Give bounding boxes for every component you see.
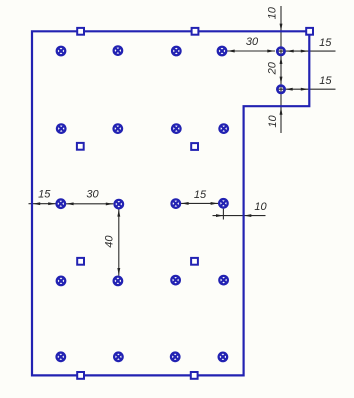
svg-text:15: 15: [194, 189, 207, 201]
arrow dim20 upper, tip below lamp: [280, 57, 283, 64]
arrow dim10 notch, tip below notch edge: [280, 107, 283, 114]
box on bottom wall 1: [77, 372, 84, 379]
lamp r4c1: [57, 277, 66, 286]
lamp r2c4: [219, 124, 228, 133]
box standalone row4 right: [191, 258, 198, 265]
lamp r3c2: [115, 200, 124, 209]
box on top wall 2: [192, 28, 199, 35]
arrow dim15 left row3, tip at lamp: [48, 202, 55, 205]
lamp r3c3: [172, 199, 181, 208]
arrow dim15 mid row3 left: [181, 202, 188, 205]
extension line below lamp row3 col4: [222, 209, 224, 220]
lamp r5c4: [219, 353, 228, 362]
lamp r1c1: [57, 47, 66, 56]
dimension line 15 left row3: [29, 203, 56, 205]
arrow dim40 top: [117, 209, 120, 216]
svg-text:15: 15: [319, 37, 332, 49]
lamp r4c3: [171, 276, 180, 285]
svg-text:30: 30: [246, 36, 259, 48]
lamp r2c3: [172, 124, 181, 133]
arrow dim15 upper-right left: [286, 50, 293, 53]
svg-text:30: 30: [86, 188, 99, 200]
svg-text:15: 15: [38, 188, 51, 200]
arrow dim30 left row3, tip at lamp: [66, 202, 73, 205]
svg-text:15: 15: [319, 75, 332, 87]
lamp r5c2: [114, 353, 123, 362]
box on top wall 1: [77, 28, 84, 35]
ring lamp upper (dimensioned): [277, 48, 284, 55]
arrow dim10 top, tip at wall: [280, 24, 283, 31]
dimension line 30 left row3: [66, 203, 113, 205]
lamp r3c4: [219, 199, 228, 208]
lamp r2c2: [114, 124, 123, 133]
lamp r4c2: [114, 277, 123, 286]
lamp r3c1: [57, 199, 66, 208]
box on bottom wall 2: [191, 372, 198, 379]
box standalone row2 left: [77, 143, 84, 150]
arrow dim15 mid row3 right: [211, 202, 218, 205]
dimension line 15 mid row3: [181, 202, 218, 204]
lamp r1c2: [114, 46, 123, 55]
arrow dim20 lower, tip above ring: [280, 77, 283, 84]
box at top-right corner: [306, 28, 313, 35]
arrow dim10 mid, tip at extension: [216, 214, 223, 217]
arrow dim10 mid, tip at wall: [244, 214, 251, 217]
dimension line 15 lower right: [277, 88, 336, 90]
arrow dim40 bottom: [117, 268, 120, 275]
dimension line 30 row1: [227, 50, 275, 52]
arrow dim15 left row3, tip at wall: [33, 202, 40, 205]
lamp r1c3: [172, 47, 181, 56]
lamp r5c1: [57, 353, 66, 362]
lamp r2c1: [57, 124, 65, 133]
box standalone row4 left: [77, 258, 84, 265]
dimension line 40 vertical: [118, 209, 120, 276]
arrow dim30 row1 right: [267, 50, 274, 53]
ring lamp lower (dimensioned): [277, 86, 284, 93]
svg-text:40: 40: [104, 235, 116, 248]
svg-text:10: 10: [267, 6, 279, 19]
lamp r1c4: [218, 47, 227, 56]
svg-text:10: 10: [267, 115, 279, 128]
svg-text:20: 20: [267, 61, 279, 75]
arrow dim30 left row3 right, tip at lamp: [106, 202, 113, 205]
lamp r5c3: [171, 353, 180, 362]
dimension line 15 upper right: [277, 50, 336, 52]
dimension line 10 mid row3: [213, 215, 266, 217]
box standalone row2 right: [191, 143, 198, 150]
wall outline: [32, 31, 309, 375]
svg-text:10: 10: [254, 201, 267, 213]
arrow dim15 upper-right right, tip at wall: [301, 50, 308, 53]
dimension line vertical x=281 (top-right chain): [280, 6, 282, 133]
arrow dim15 lower-right left: [285, 88, 292, 91]
lamp r4c4: [219, 276, 228, 285]
arrow dim30 row1 left: [227, 50, 234, 53]
arrow dim15 lower-right right, tip at wall: [301, 88, 308, 91]
